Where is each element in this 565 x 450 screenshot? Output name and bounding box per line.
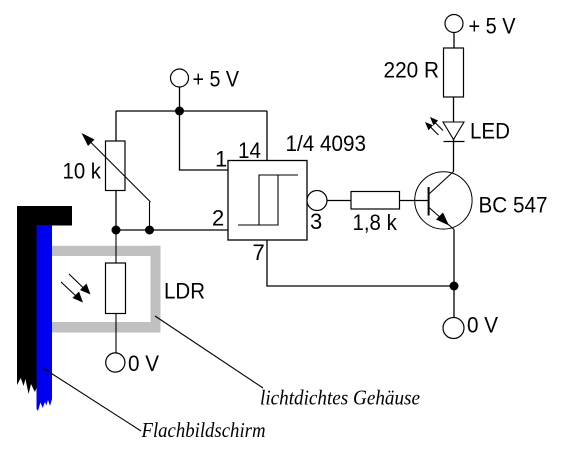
potentiometer wiper arrow [82,133,151,230]
svg-text:1,8 k: 1,8 k [353,210,398,235]
supply terminal +5V right [445,15,463,33]
gate output inversion bubble [307,191,327,211]
LED cathode bar [444,141,465,143]
resistor 220R body [444,48,464,97]
LED emission arrows [425,117,443,135]
wire pin2 node to LDR [115,230,117,263]
transistor emitter line [429,208,454,230]
transistor base bar [428,187,430,216]
node junction pot bottom [112,226,121,235]
wire 220R to LED and collector [453,97,455,172]
svg-text:10 k: 10 k [63,159,102,184]
flat screen black part [17,206,72,394]
gate U1 1/4 4093 body [228,161,307,241]
svg-text:LED: LED [470,119,510,144]
svg-text:0 V: 0 V [467,313,498,338]
svg-text:Flachbildschirm: Flachbildschirm [141,418,266,442]
wire pin 1 [180,111,229,170]
wire resistor to base [400,200,429,202]
wire emitter down to junction [453,230,455,318]
supply terminal +5V left [171,69,189,87]
wire top rail [116,110,267,112]
svg-text:2: 2 [212,206,224,231]
wire pin 14 drop [266,111,268,161]
transistor Q1 BC547 circle [415,172,472,229]
wire LDR to 0V [115,314,117,355]
svg-text:220 R: 220 R [384,58,440,83]
ground terminal 0V right [443,318,464,339]
node junction ground [450,282,459,291]
LED D1 triangle [443,122,464,140]
wire pot bottom [115,191,117,231]
node junction wiper [145,226,154,235]
svg-text:+ 5 V: + 5 V [193,67,240,92]
svg-text:BC 547: BC 547 [479,193,548,218]
resistor 1.8k body [351,192,400,210]
wire gate output to resistor [327,200,351,202]
transistor collector line [429,172,454,195]
svg-text:7: 7 [253,240,265,265]
pointer line to Flachbildschirm label [43,368,141,431]
ground terminal 0V left [106,353,125,372]
svg-text:lichtdichtes Gehäuse: lichtdichtes Gehäuse [260,386,420,410]
potentiometer R 10k body [106,141,126,191]
LDR body [106,263,126,314]
pointer line to Gehaeuse label [155,316,263,388]
svg-text:3: 3 [310,209,322,234]
svg-text:1/4 4093: 1/4 4093 [286,131,367,156]
LDR light arrows [61,274,91,303]
svg-text:+ 5 V: + 5 V [469,14,516,39]
wire pin 7 to ground rail [267,240,454,286]
housing (lichtdichtes Gehaeuse) gray frame [52,246,161,333]
flat screen blue part [37,225,53,411]
svg-text:LDR: LDR [164,279,205,304]
wire +5V stem left [179,87,181,111]
svg-text:14: 14 [238,138,261,163]
wire to pot top [115,111,117,141]
svg-text:1: 1 [215,147,227,172]
transistor emitter arrowhead [436,213,449,226]
gate hysteresis symbol [238,175,298,225]
node junction top [175,107,184,116]
wire pin 2 [116,229,228,231]
svg-text:0 V: 0 V [128,351,159,376]
wire +5V right stem [453,33,455,49]
